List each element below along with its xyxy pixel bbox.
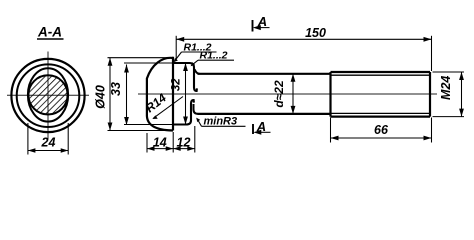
- svg-text:33: 33: [109, 82, 123, 96]
- dimension 150: [176, 26, 431, 71]
- dimension 32: [170, 63, 188, 125]
- bolt head dome outline: [147, 58, 173, 131]
- svg-text:24: 24: [41, 135, 56, 149]
- bolt end line: [429, 72, 431, 117]
- fillet minR3 at shaft bottom: [194, 104, 199, 114]
- hatched shank section d=22: [28, 75, 67, 114]
- svg-text:12: 12: [177, 135, 191, 149]
- label R14 with leader: [143, 91, 183, 119]
- svg-text:66: 66: [374, 123, 389, 137]
- dimension 66: [331, 118, 432, 143]
- svg-text:32: 32: [170, 78, 182, 91]
- thread major top line: [331, 71, 431, 73]
- svg-text:A-A: A-A: [37, 25, 62, 40]
- label minR3: [196, 115, 245, 127]
- svg-text:d≈22: d≈22: [272, 80, 286, 108]
- head outer circle Ø40: [11, 59, 84, 132]
- oval sub-head outline: [28, 68, 68, 121]
- section marker A top: [253, 14, 270, 32]
- dimension M24: [433, 72, 465, 117]
- thread start line: [329, 72, 331, 117]
- neck top outline with fillet: [173, 63, 197, 91]
- label A-A: [37, 25, 64, 40]
- svg-text:M24: M24: [439, 76, 453, 100]
- dimensions 14 and 12: [147, 126, 195, 153]
- centerline horizontal (left view): [7, 94, 89, 96]
- fillet minR3 at shaft top: [195, 69, 200, 74]
- thread minor bottom line: [331, 112, 430, 114]
- head base line: [172, 57, 174, 131]
- label R1...2 upper: [174, 42, 217, 63]
- axis centerline: [138, 93, 437, 95]
- svg-text:A: A: [257, 14, 267, 29]
- shank bottom line: [198, 113, 331, 115]
- svg-text:150: 150: [305, 26, 326, 40]
- svg-text:Ø40: Ø40: [93, 85, 107, 109]
- section marker A bottom: [253, 119, 271, 135]
- thread major bottom line: [331, 115, 431, 117]
- svg-text:minR3: minR3: [204, 115, 238, 127]
- dimension 24: [28, 123, 68, 155]
- dimension d≈22: [272, 74, 295, 114]
- head flat-face circle: [17, 64, 80, 127]
- label R1...2 lower: [191, 50, 234, 67]
- dimension Ø40: [93, 58, 171, 131]
- centerline vertical (left view): [47, 52, 49, 140]
- neck bottom outline with fillet: [173, 100, 194, 125]
- svg-text:14: 14: [153, 135, 167, 149]
- shank top line: [198, 73, 331, 75]
- thread minor top line: [331, 74, 430, 76]
- dimension 33: [109, 63, 172, 125]
- svg-text:A: A: [256, 119, 266, 134]
